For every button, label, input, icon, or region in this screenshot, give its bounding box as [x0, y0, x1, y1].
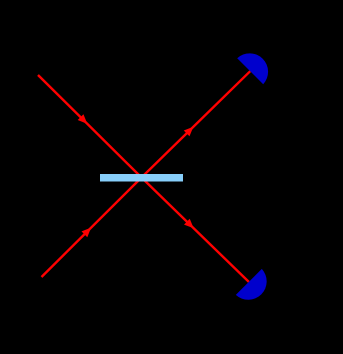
arrowhead on beam to detector D2	[184, 219, 194, 229]
detector D1 (top-right half-disc)	[237, 53, 268, 84]
arrowhead on beam to detector D1	[184, 127, 194, 137]
beam splitter BS (light blue plate)	[100, 174, 183, 182]
arrowhead on beam input 2	[82, 228, 92, 238]
wire beam output to detector D2 (splitter to bottom-right)	[142, 178, 249, 282]
wire beam output to detector D1 (splitter to top-right)	[142, 71, 251, 177]
wire beam input 2 (bottom-left to splitter)	[42, 178, 142, 278]
arrowhead on beam input 1	[78, 114, 88, 124]
wire beam input 1 (top-left to splitter)	[38, 75, 142, 178]
detector D2 (bottom-right half-disc)	[236, 269, 267, 300]
